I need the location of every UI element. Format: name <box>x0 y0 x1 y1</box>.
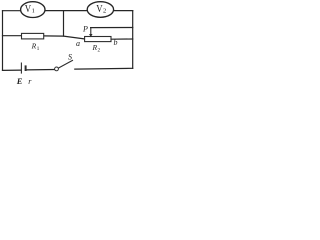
svg-text:1: 1 <box>32 8 35 15</box>
battery E short plate <box>25 65 27 71</box>
wire R2 right lead (terminal b) <box>111 38 133 40</box>
svg-text:S: S <box>68 53 72 62</box>
svg-text:P: P <box>82 24 88 33</box>
svg-text:r: r <box>28 77 32 86</box>
switch S pivot <box>55 67 59 71</box>
voltmeter V1 <box>21 2 45 18</box>
svg-text:a: a <box>76 39 80 48</box>
switch S blade <box>58 60 73 68</box>
voltmeter V2 <box>87 2 113 18</box>
wire top middle horizontal <box>45 10 87 12</box>
svg-text:V: V <box>25 4 32 15</box>
svg-text:2: 2 <box>103 8 106 15</box>
label R2 <box>92 43 101 53</box>
wire right vertical <box>132 11 134 69</box>
svg-text:1: 1 <box>37 46 40 52</box>
svg-text:2: 2 <box>98 47 101 53</box>
battery E long plate <box>20 63 22 74</box>
potentiometer R2 body <box>85 37 111 42</box>
wire middle vertical (node between R1 and R2) <box>63 11 65 36</box>
wire R1 right lead to pot <box>44 36 85 39</box>
wire top-left horizontal <box>3 10 21 12</box>
svg-text:b: b <box>114 38 118 47</box>
svg-text:V: V <box>96 4 103 15</box>
wire bottom-left to battery <box>3 69 22 71</box>
resistor R1 <box>22 33 44 39</box>
wire battery to switch <box>27 69 55 71</box>
wire R1 left lead <box>3 35 22 37</box>
wiper P arrow <box>89 28 92 38</box>
svg-text:E: E <box>16 76 23 86</box>
wire left vertical <box>2 11 4 71</box>
wire wiper horizontal <box>91 27 133 29</box>
label R1 <box>31 42 40 53</box>
wire switch to bottom-right <box>75 67 133 70</box>
wire top-right horizontal <box>114 10 133 12</box>
